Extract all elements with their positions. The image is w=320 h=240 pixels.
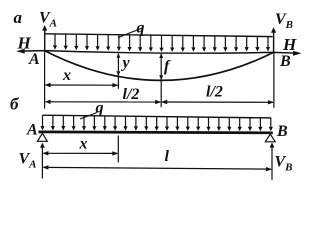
extension tick at x (bottom)	[117, 136, 119, 163]
force V_A (top)	[44, 30, 46, 51]
pinned support B (triangle)	[265, 134, 275, 142]
dimension l/2 left	[46, 101, 161, 103]
distributed load q line (top)	[45, 34, 273, 37]
force H right arrowhead	[293, 51, 302, 56]
dimension y	[117, 54, 119, 89]
dimension x (bottom)	[43, 152, 117, 154]
force H left arrowhead	[16, 49, 25, 54]
pinned support A (triangle)	[38, 133, 48, 141]
cable curve (parabola)	[45, 51, 274, 81]
force V_B (bottom)	[271, 146, 273, 180]
svg-text:A: A	[26, 122, 38, 139]
wire chord A-B	[20, 51, 298, 54]
svg-text:l/2: l/2	[206, 84, 223, 101]
extension line below B	[273, 52, 275, 107]
extension line below A	[44, 51, 46, 109]
label q (bottom) with leader	[80, 113, 97, 120]
label q (top) with leader	[118, 28, 144, 38]
svg-text:q: q	[96, 100, 104, 117]
force V_A (bottom)	[41, 147, 43, 179]
dimension l	[43, 167, 271, 169]
svg-text:x: x	[79, 136, 88, 153]
svg-text:l/2: l/2	[123, 86, 140, 103]
force V_B (top)	[273, 32, 275, 53]
distributed load arrows (top)	[55, 34, 268, 48]
svg-text:x: x	[62, 67, 71, 84]
svg-text:B: B	[279, 53, 291, 70]
svg-text:q: q	[137, 20, 145, 37]
svg-text:H: H	[282, 35, 297, 54]
dimension x (top)	[46, 84, 118, 86]
svg-text:y: y	[121, 55, 131, 72]
svg-text:l: l	[165, 148, 170, 165]
dimension f	[160, 54, 162, 107]
dimension l/2 right	[162, 101, 273, 103]
svg-text:A: A	[28, 51, 40, 68]
svg-text:B: B	[276, 123, 288, 140]
distributed load arrows (bottom)	[43, 115, 271, 127]
beam A-B	[38, 131, 272, 135]
svg-text:а: а	[14, 8, 23, 27]
svg-text:H: H	[17, 34, 32, 53]
distributed load q line (bottom)	[43, 115, 271, 118]
